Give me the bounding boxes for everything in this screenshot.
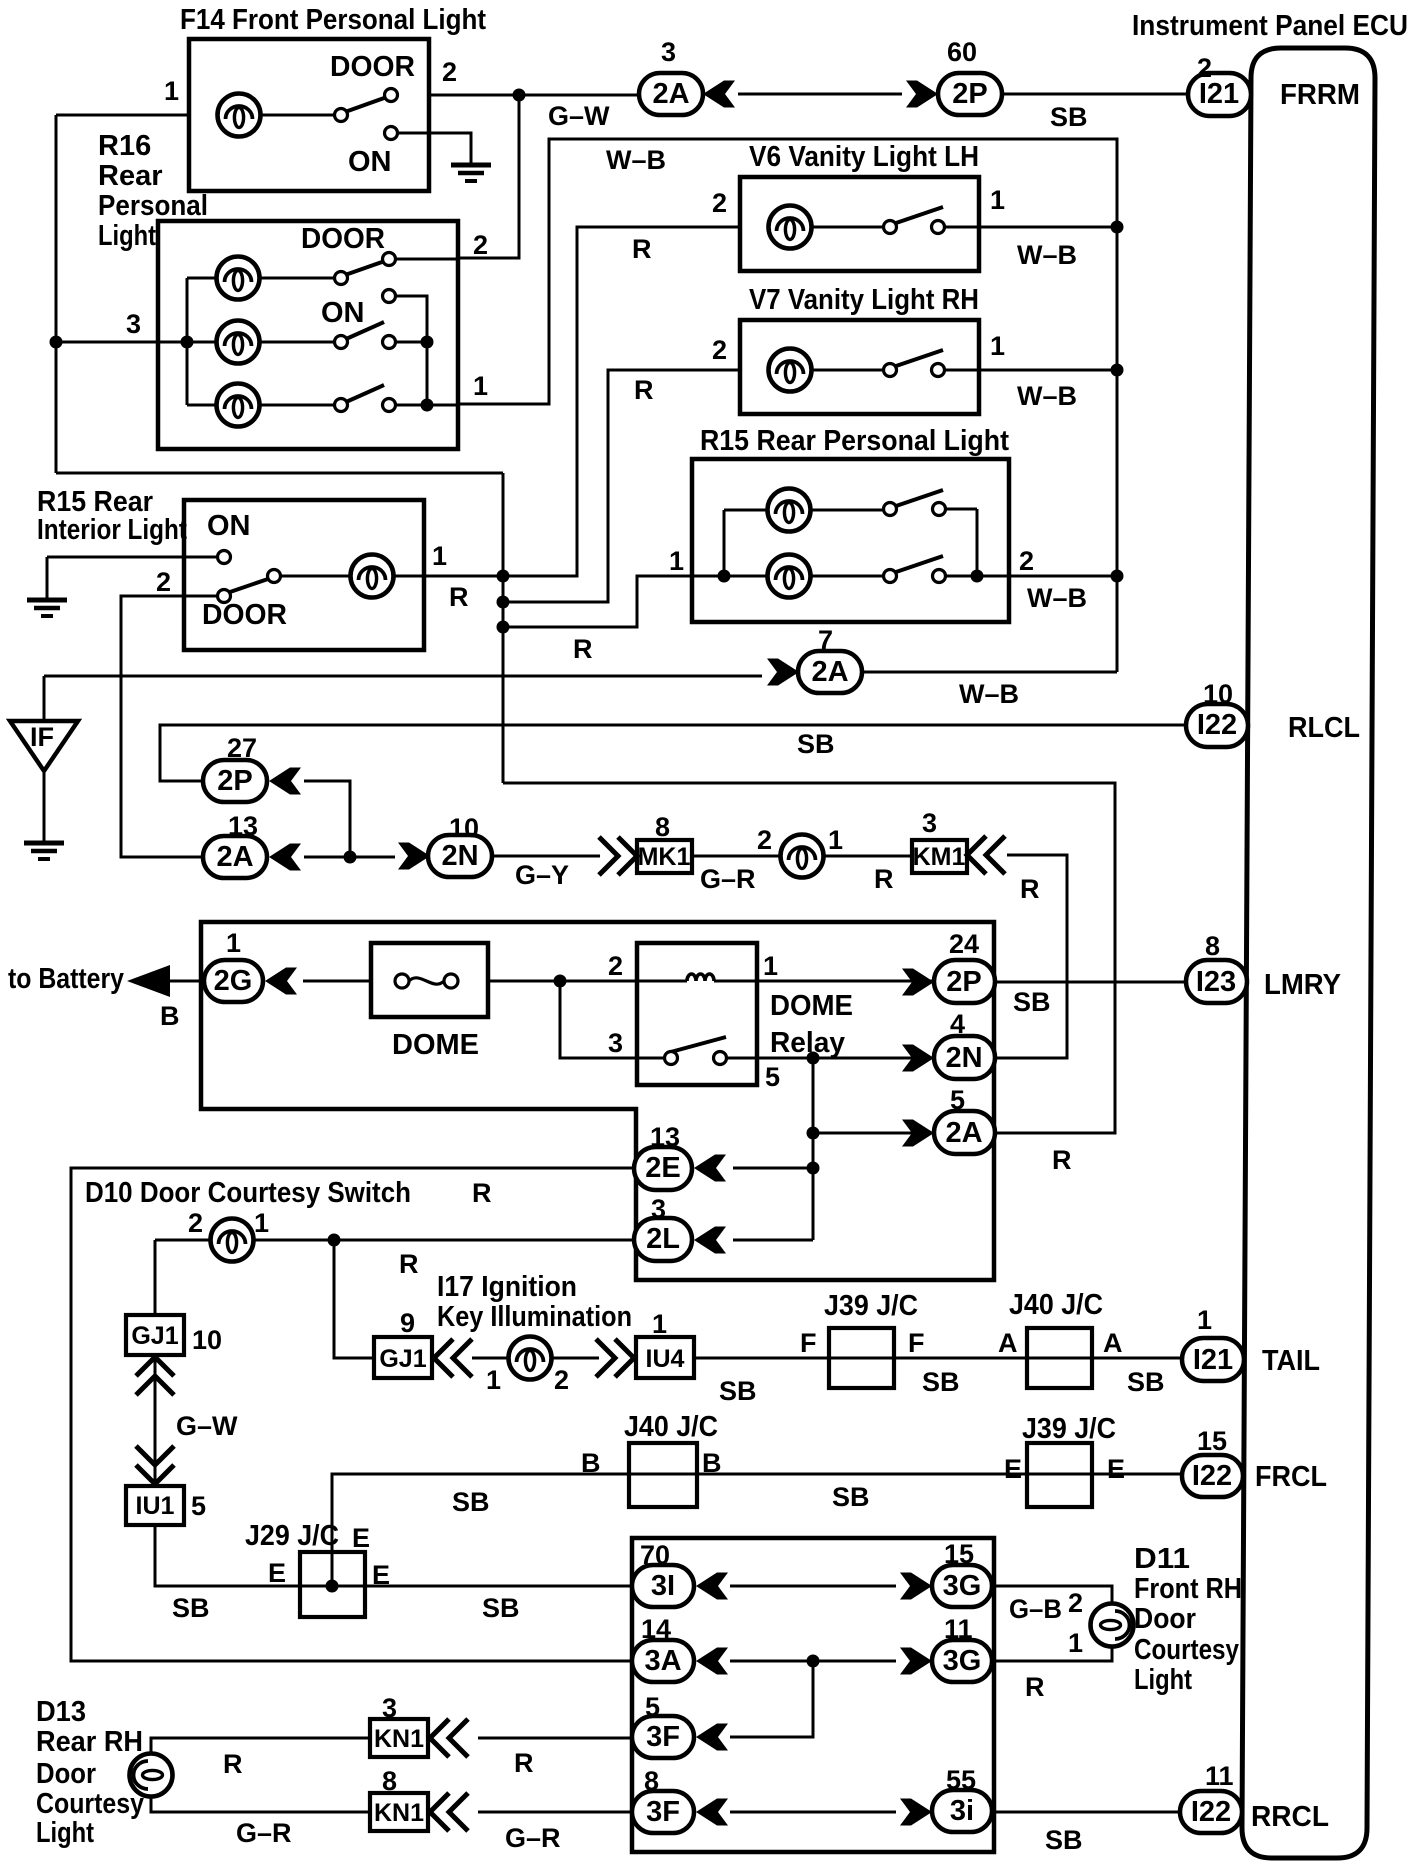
- wire V7 R branch: [503, 370, 740, 602]
- wire J29 through to 3I-70: [300, 1585, 632, 1588]
- svg-text:G–B: G–B: [1009, 1594, 1062, 1624]
- lamp R15 personal top: [768, 489, 811, 532]
- svg-text:DOME: DOME: [770, 990, 853, 1022]
- svg-text:1: 1: [828, 825, 843, 855]
- svg-text:2: 2: [712, 188, 727, 218]
- svg-text:J40 J/C: J40 J/C: [624, 1411, 718, 1443]
- connector I23 LMRY: [1186, 960, 1247, 1003]
- svg-text:LMRY: LMRY: [1264, 969, 1341, 1001]
- connector KM1 chevrons: [967, 836, 1005, 874]
- junction dot (1117,576): [1111, 570, 1124, 583]
- svg-text:3: 3: [661, 37, 676, 67]
- wire R15 interior ON to ground: [47, 557, 218, 598]
- junction dot (977,576): [971, 570, 984, 583]
- svg-text:SB: SB: [922, 1367, 960, 1397]
- svg-text:A: A: [998, 1328, 1018, 1358]
- connector I22 FRCL: [1182, 1455, 1243, 1497]
- box GJ1 upper: [126, 1315, 184, 1355]
- junction dot (427,342): [421, 336, 434, 349]
- box R15 Rear Personal Light: [692, 459, 1009, 622]
- svg-text:Front RH: Front RH: [1134, 1573, 1242, 1605]
- svg-text:I22: I22: [1191, 1796, 1231, 1828]
- svg-text:Instrument Panel ECU: Instrument Panel ECU: [1132, 10, 1408, 42]
- svg-text:J39 J/C: J39 J/C: [1022, 1413, 1116, 1445]
- box MK1: [637, 840, 692, 873]
- box V7 Vanity Light RH: [740, 320, 979, 414]
- svg-text:ON: ON: [348, 146, 392, 178]
- connector 2L-3: [634, 1218, 692, 1261]
- wire GJ1-IU1 connector run: [154, 1355, 157, 1486]
- ground IF: [24, 843, 64, 859]
- svg-text:R: R: [399, 1249, 419, 1279]
- wire D13 lamp to KN1-8: [151, 1795, 370, 1812]
- svg-text:1: 1: [486, 1365, 501, 1395]
- lamp I17 ignition key illumination: [509, 1337, 552, 1380]
- svg-text:55: 55: [946, 1765, 976, 1795]
- connector GJ1 down chevrons: [136, 1357, 174, 1395]
- svg-text:G–R: G–R: [505, 1823, 561, 1853]
- box Instrument Panel ECU: [1242, 48, 1375, 1858]
- svg-text:to Battery: to Battery: [8, 963, 124, 995]
- wire GJ1-9 to I17 lamp: [472, 1357, 510, 1360]
- svg-text:DOOR: DOOR: [330, 51, 415, 83]
- svg-text:RLCL: RLCL: [1288, 712, 1360, 744]
- svg-text:E: E: [268, 1558, 286, 1588]
- lamp D11 front RH door courtesy: [1091, 1604, 1134, 1647]
- svg-text:KM1: KM1: [913, 843, 966, 871]
- connector IU4 chevrons: [596, 1339, 634, 1377]
- ground R15 interior: [27, 600, 67, 616]
- svg-text:3A: 3A: [644, 1645, 681, 1677]
- relay DOME contact: [667, 1037, 726, 1053]
- svg-text:2: 2: [473, 230, 488, 260]
- wire G-W drop to R16 pin2: [458, 95, 519, 258]
- lamp V6: [769, 206, 812, 249]
- connector I22 RLCL: [1186, 704, 1248, 747]
- junction dot (519,95): [513, 89, 526, 102]
- junction dot (503,627): [497, 621, 510, 634]
- svg-text:13: 13: [228, 811, 258, 841]
- svg-text:B: B: [160, 1001, 180, 1031]
- wire KN1-8 to 3F-8: [478, 1811, 632, 1814]
- svg-text:E: E: [1107, 1454, 1125, 1484]
- svg-text:G–R: G–R: [700, 864, 756, 894]
- svg-text:D11: D11: [1134, 1543, 1190, 1575]
- svg-text:SB: SB: [832, 1482, 870, 1512]
- svg-text:3: 3: [382, 1693, 397, 1723]
- svg-text:R: R: [223, 1749, 243, 1779]
- svg-text:R15 Rear Personal Light: R15 Rear Personal Light: [700, 425, 1009, 457]
- svg-text:5: 5: [191, 1491, 206, 1521]
- wire 3I-70 to 3G-15: [730, 1585, 896, 1588]
- wire DOME relay vertical x813: [812, 1058, 815, 1240]
- svg-text:9: 9: [400, 1308, 415, 1338]
- wire to 2A-5: [813, 1132, 934, 1135]
- wire 2L-3 chevron stub: [733, 1239, 813, 1242]
- connector 2A-5: [902, 1120, 934, 1147]
- svg-text:5: 5: [950, 1085, 965, 1115]
- svg-text:1: 1: [763, 951, 778, 981]
- switch V7: [810, 369, 979, 372]
- svg-text:Light: Light: [1134, 1664, 1192, 1696]
- junction dot (724,576): [718, 570, 731, 583]
- svg-text:W–B: W–B: [1017, 240, 1077, 270]
- svg-text:R: R: [1025, 1672, 1045, 1702]
- wire 3G junction drop to 3F-5: [730, 1661, 813, 1737]
- connector 3I-70: [632, 1565, 694, 1607]
- svg-text:2: 2: [554, 1365, 569, 1395]
- svg-text:1: 1: [226, 928, 241, 958]
- junction dot (1117,227): [1111, 221, 1124, 234]
- svg-text:SB: SB: [1013, 987, 1051, 1017]
- wire D10 row to 2L-3: [155, 1239, 634, 1242]
- lamp R16 middle: [217, 321, 260, 364]
- svg-text:5: 5: [645, 1692, 660, 1722]
- wire D10 junction to GJ1-9: [334, 1240, 374, 1358]
- box R15 Rear Interior Light: [184, 500, 424, 650]
- svg-text:8: 8: [644, 1766, 659, 1796]
- connector 2A-13: [203, 836, 267, 878]
- svg-text:2: 2: [608, 951, 623, 981]
- svg-text:J29 J/C: J29 J/C: [245, 1520, 339, 1552]
- svg-text:V6 Vanity Light LH: V6 Vanity Light LH: [749, 141, 979, 173]
- svg-text:DOOR: DOOR: [301, 223, 385, 255]
- wire 2P-60 to I21 FRRM: [1002, 93, 1188, 96]
- wire relay pin1 to 2P-24: [714, 980, 934, 983]
- wire SB to I22 RLCL: [160, 725, 1186, 781]
- wire D11 lamp to 3G-11: [992, 1645, 1112, 1661]
- svg-text:R: R: [632, 234, 652, 264]
- svg-text:R: R: [1020, 874, 1040, 904]
- svg-text:2P: 2P: [952, 78, 987, 110]
- switch R15 interior: [280, 575, 424, 578]
- svg-text:I22: I22: [1197, 709, 1237, 741]
- svg-text:14: 14: [641, 1614, 671, 1644]
- svg-text:Rear: Rear: [98, 160, 163, 192]
- connector 2N-4: [902, 1045, 934, 1072]
- junction dot (560,981): [554, 975, 567, 988]
- svg-text:3: 3: [651, 1194, 666, 1224]
- wire 2A-13 to 2N-10: [304, 856, 395, 859]
- connector 2P-27: [203, 760, 267, 802]
- connector I22 RRCL: [1180, 1791, 1242, 1833]
- box DOME relay: [637, 943, 757, 1085]
- wire relay pin5 to 2N-4: [726, 1057, 934, 1060]
- svg-text:70: 70: [640, 1540, 670, 1570]
- wire J29 riser to J40 J39 I22 FRCL: [332, 1474, 1182, 1586]
- junction dot (503,602): [497, 596, 510, 609]
- wire relay pin3 branch: [560, 981, 666, 1058]
- svg-text:Relay: Relay: [770, 1027, 845, 1059]
- connector 2N-10: [398, 843, 430, 870]
- wire 2A-3 to 2P-60: [738, 93, 902, 96]
- svg-text:SB: SB: [1127, 1367, 1165, 1397]
- lamp interior illumination MK1-KM1: [781, 835, 824, 878]
- box KM1: [912, 840, 967, 873]
- wire F14 pin2 to 2A-3: [429, 94, 641, 97]
- svg-text:Light: Light: [98, 220, 156, 252]
- wire 2A-7 to W-B bus: [862, 671, 1117, 674]
- svg-text:ON: ON: [321, 297, 365, 329]
- wire fuse to relay coil: [488, 980, 687, 983]
- svg-text:D10 Door Courtesy Switch: D10 Door Courtesy Switch: [85, 1177, 411, 1209]
- wire R15 personal pin2 to W-B bus: [1009, 575, 1117, 578]
- wire 2E-13 chevron stub: [733, 1167, 813, 1170]
- svg-text:1: 1: [432, 541, 447, 571]
- svg-text:KN1: KN1: [374, 1799, 424, 1827]
- connector 2A-3: [639, 73, 703, 115]
- svg-text:Light: Light: [36, 1817, 94, 1849]
- box V6 Vanity Light LH: [740, 177, 979, 271]
- svg-text:8: 8: [1205, 931, 1220, 961]
- svg-text:13: 13: [650, 1122, 680, 1152]
- switch R16 ON row: [258, 341, 335, 344]
- svg-text:Door: Door: [1134, 1603, 1196, 1635]
- wire I17 lamp to IU4: [550, 1357, 599, 1360]
- svg-text:IU1: IU1: [136, 1492, 175, 1520]
- svg-text:G–W: G–W: [176, 1411, 238, 1441]
- svg-text:I21: I21: [1193, 1344, 1233, 1376]
- junction dot (813,1133): [807, 1127, 820, 1140]
- svg-text:2N: 2N: [945, 1042, 982, 1074]
- switch F14: [259, 114, 335, 117]
- junction dot (503,576): [497, 570, 510, 583]
- connector 2P-24: [902, 969, 934, 996]
- wire R net to DOME relay 2A-5: [503, 783, 1115, 1133]
- box IU4: [636, 1337, 694, 1378]
- box KN1 lower: [370, 1793, 428, 1831]
- svg-text:R: R: [449, 582, 469, 612]
- svg-text:3F: 3F: [646, 1721, 680, 1753]
- svg-text:Interior Light: Interior Light: [37, 514, 187, 546]
- svg-text:Key Illumination: Key Illumination: [437, 1301, 632, 1333]
- svg-text:24: 24: [949, 929, 979, 959]
- R16 internal bus: [187, 278, 218, 405]
- svg-text:2: 2: [442, 57, 457, 87]
- svg-text:SB: SB: [1050, 102, 1088, 132]
- box IU1: [126, 1486, 184, 1525]
- svg-text:SB: SB: [482, 1593, 520, 1623]
- svg-text:2G: 2G: [214, 965, 253, 997]
- svg-text:Door: Door: [36, 1758, 96, 1790]
- wire F14 pin1 to left vertical: [56, 114, 189, 117]
- svg-text:R: R: [514, 1748, 534, 1778]
- wire IU1 to J29: [155, 1525, 300, 1586]
- svg-text:MK1: MK1: [638, 843, 691, 871]
- svg-text:W–B: W–B: [1027, 583, 1087, 613]
- wire R net horizontal y473: [56, 472, 503, 475]
- connector 2G-1: [204, 960, 263, 1002]
- svg-text:10: 10: [449, 813, 479, 843]
- connector 3A-14: [632, 1640, 694, 1682]
- junction dot (332,1586): [326, 1580, 339, 1593]
- wire to Battery: [168, 980, 204, 983]
- wire KN1-3 to 3F-5: [478, 1737, 632, 1740]
- svg-text:3F: 3F: [646, 1796, 680, 1828]
- junction dot (1117,370): [1111, 364, 1124, 377]
- ground F14 internal: [451, 165, 491, 181]
- wire R15 interior pin1 to V6 R riser: [424, 227, 740, 576]
- svg-text:DOOR: DOOR: [202, 599, 287, 631]
- box GJ1 lower: [374, 1337, 432, 1378]
- svg-text:GJ1: GJ1: [379, 1345, 426, 1373]
- svg-text:2P: 2P: [946, 966, 981, 998]
- svg-text:W–B: W–B: [1017, 381, 1077, 411]
- svg-text:I17 Ignition: I17 Ignition: [437, 1271, 577, 1303]
- box lower junction block: [632, 1538, 994, 1852]
- svg-text:SB: SB: [1045, 1825, 1083, 1855]
- svg-text:F: F: [800, 1328, 817, 1358]
- svg-text:R: R: [1052, 1145, 1072, 1175]
- svg-text:RRCL: RRCL: [1251, 1801, 1329, 1833]
- switch R15 personal top: [809, 509, 977, 576]
- connector 2E-13: [634, 1147, 692, 1190]
- svg-text:7: 7: [818, 625, 833, 655]
- svg-text:2N: 2N: [441, 840, 478, 872]
- svg-text:F: F: [908, 1328, 925, 1358]
- switch V6: [810, 226, 979, 229]
- svg-text:SB: SB: [172, 1593, 210, 1623]
- svg-text:1: 1: [1197, 1305, 1212, 1335]
- wire F14 ON to ground: [396, 133, 471, 163]
- svg-text:3G: 3G: [943, 1570, 982, 1602]
- svg-text:3: 3: [608, 1028, 623, 1058]
- svg-text:1: 1: [254, 1208, 269, 1238]
- svg-text:E: E: [372, 1560, 390, 1590]
- box DOME fuse: [371, 943, 488, 1017]
- wire 3G-15 to D11 lamp: [992, 1586, 1112, 1605]
- svg-text:Courtesy: Courtesy: [1134, 1634, 1239, 1666]
- svg-text:2: 2: [156, 567, 171, 597]
- lamp D10 door courtesy switch: [211, 1219, 254, 1262]
- svg-text:Courtesy: Courtesy: [36, 1788, 144, 1820]
- svg-text:FRRM: FRRM: [1280, 79, 1360, 111]
- svg-text:DOME: DOME: [392, 1029, 479, 1061]
- wire 3A-14 to 3G-11: [730, 1660, 896, 1663]
- lamp D13 rear RH door courtesy: [130, 1754, 173, 1797]
- wire IU4 to J39 to J40 to I21 TAIL: [694, 1357, 1182, 1360]
- connector 3G-15: [900, 1573, 932, 1600]
- wire D13 lamp to KN1-3: [151, 1738, 370, 1756]
- connector 2P-60: [906, 81, 938, 108]
- svg-text:2A: 2A: [945, 1117, 982, 1149]
- wire IF to 2A-7: [44, 675, 762, 678]
- junction dot (350,857): [344, 851, 357, 864]
- svg-text:2P: 2P: [217, 765, 252, 797]
- junction dot (187,342): [181, 336, 194, 349]
- svg-text:B: B: [581, 1448, 601, 1478]
- svg-text:10: 10: [1203, 679, 1233, 709]
- svg-text:1: 1: [990, 331, 1005, 361]
- svg-text:8: 8: [382, 1766, 397, 1796]
- svg-text:2: 2: [188, 1208, 203, 1238]
- svg-text:15: 15: [944, 1539, 974, 1569]
- wire V7 pin1 to W-B bus: [979, 369, 1117, 372]
- relay DOME coil: [687, 974, 714, 981]
- wire D10 pin2 drop to GJ1: [154, 1240, 157, 1315]
- svg-text:1: 1: [990, 185, 1005, 215]
- junction dot (813,1058): [807, 1052, 820, 1065]
- switch R16 third row: [258, 404, 335, 407]
- lamp V7: [769, 349, 812, 392]
- connector GJ1-9 chevrons: [434, 1339, 472, 1377]
- wire 2P-27 to junction: [304, 781, 350, 857]
- svg-text:3: 3: [126, 309, 141, 339]
- svg-text:FRCL: FRCL: [1255, 1461, 1327, 1493]
- svg-text:SB: SB: [452, 1487, 490, 1517]
- wire 2N-10 to MK1: [490, 855, 600, 858]
- fuse DOME internals: [395, 974, 409, 988]
- IF triangle: [10, 721, 78, 771]
- svg-text:2: 2: [1019, 546, 1034, 576]
- wire 3F-8 to 3i-55: [730, 1811, 896, 1814]
- wire 2G-1 to fuse: [303, 980, 371, 983]
- svg-text:1: 1: [652, 1309, 667, 1339]
- svg-text:1: 1: [669, 546, 684, 576]
- svg-text:15: 15: [1197, 1426, 1227, 1456]
- wire V6 pin1 to W-B bus: [979, 226, 1117, 229]
- wire 3i-55 to I22 RRCL: [992, 1811, 1180, 1814]
- box J39 J/C frcl row: [1027, 1443, 1092, 1507]
- wire 2E-13 R loop to 3A-14: [71, 1168, 634, 1661]
- svg-text:2A: 2A: [811, 656, 848, 688]
- svg-text:2: 2: [757, 825, 772, 855]
- svg-text:SB: SB: [797, 729, 835, 759]
- svg-text:D13: D13: [36, 1696, 86, 1728]
- connector 3G-11: [900, 1648, 932, 1675]
- junction dot (813,1168): [807, 1162, 820, 1175]
- svg-text:60: 60: [947, 37, 977, 67]
- connector KN1-8 chevrons: [430, 1793, 468, 1831]
- wire R15 personal pin1 branch: [503, 576, 692, 627]
- wire 2P-24 to I23 LMRY: [995, 981, 1186, 984]
- svg-text:SB: SB: [719, 1376, 757, 1406]
- svg-text:R: R: [634, 375, 654, 405]
- svg-text:Personal: Personal: [98, 190, 208, 222]
- lamp R16 top: [217, 257, 260, 300]
- junction dot (427,405): [421, 399, 434, 412]
- wire R16 pin3: [56, 341, 218, 344]
- box J40 J/C tail row: [1027, 1328, 1092, 1388]
- svg-text:W–B: W–B: [606, 145, 666, 175]
- svg-text:11: 11: [944, 1614, 973, 1644]
- svg-text:A: A: [1103, 1328, 1123, 1358]
- lamp R15 personal bottom: [768, 555, 811, 598]
- wire KM1 to 2N-4: [995, 855, 1067, 1058]
- wire R net left vertical: [55, 115, 58, 473]
- svg-text:1: 1: [1068, 1628, 1083, 1658]
- connector 3i-55: [900, 1799, 932, 1826]
- svg-text:2L: 2L: [646, 1223, 680, 1255]
- svg-text:R: R: [874, 864, 894, 894]
- svg-text:ON: ON: [207, 510, 251, 542]
- connector MK1 chevrons: [599, 837, 637, 875]
- connector 2A-7: [767, 659, 799, 686]
- svg-text:IU4: IU4: [646, 1345, 685, 1373]
- svg-text:2A: 2A: [652, 78, 689, 110]
- svg-text:3I: 3I: [651, 1570, 675, 1602]
- connector KN1-3 chevrons: [430, 1719, 468, 1757]
- svg-text:11: 11: [1205, 1761, 1234, 1791]
- R15 personal internal bus: [692, 510, 769, 576]
- connector 3F-8: [632, 1791, 694, 1833]
- svg-text:2: 2: [712, 335, 727, 365]
- box DOME circuit outer: [201, 922, 994, 1280]
- junction dot (334,1240): [328, 1234, 341, 1247]
- svg-text:J40 J/C: J40 J/C: [1009, 1289, 1103, 1321]
- svg-text:G–W: G–W: [548, 101, 610, 131]
- svg-text:Rear RH: Rear RH: [36, 1726, 143, 1758]
